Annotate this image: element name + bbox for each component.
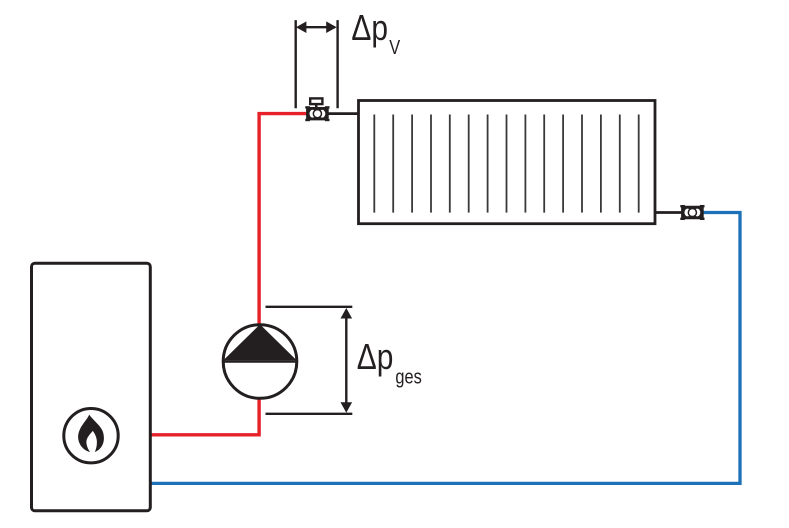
wire: black stub valve V1 to radiator inlet (326, 112, 360, 115)
wire: black stub radiator outlet to lockshield valve (654, 211, 683, 214)
dimension Dp_ges: top extension line (266, 306, 353, 308)
dimension Dp_ges: vertical double arrow (341, 308, 353, 413)
wire: red supply pipe (boiler to pump to radiator valve) (150, 114, 308, 435)
wire: blue return pipe (lockshield valve back to boiler) (150, 213, 740, 484)
dimension Dp_V: right extension line (336, 20, 338, 108)
radiator fins (15 vertical lines) (374, 115, 638, 213)
burner circle (64, 409, 118, 463)
boiler (heat source with gas flame symbol) (32, 263, 151, 511)
thermostatic radiator valve V1 (body) (305, 106, 329, 121)
dimension Dp_V: horizontal double arrow (296, 21, 337, 33)
valve V1 stem (315, 105, 318, 109)
svg-text:ges: ges (395, 365, 421, 388)
svg-text:V: V (389, 36, 401, 59)
dimension Dp_ges: bottom extension line (266, 413, 353, 415)
svg-text:Δp: Δp (351, 8, 388, 48)
valve V1 actuator head (310, 98, 322, 104)
lockshield valve V2 (body) (680, 205, 704, 220)
dimension Dp_V: left extension line (295, 20, 297, 108)
radiator (panel with fins) (359, 101, 656, 224)
flame icon (78, 415, 104, 453)
pump P1 (circle with filled triangle) (222, 324, 298, 398)
svg-text:Δp: Δp (357, 337, 394, 377)
